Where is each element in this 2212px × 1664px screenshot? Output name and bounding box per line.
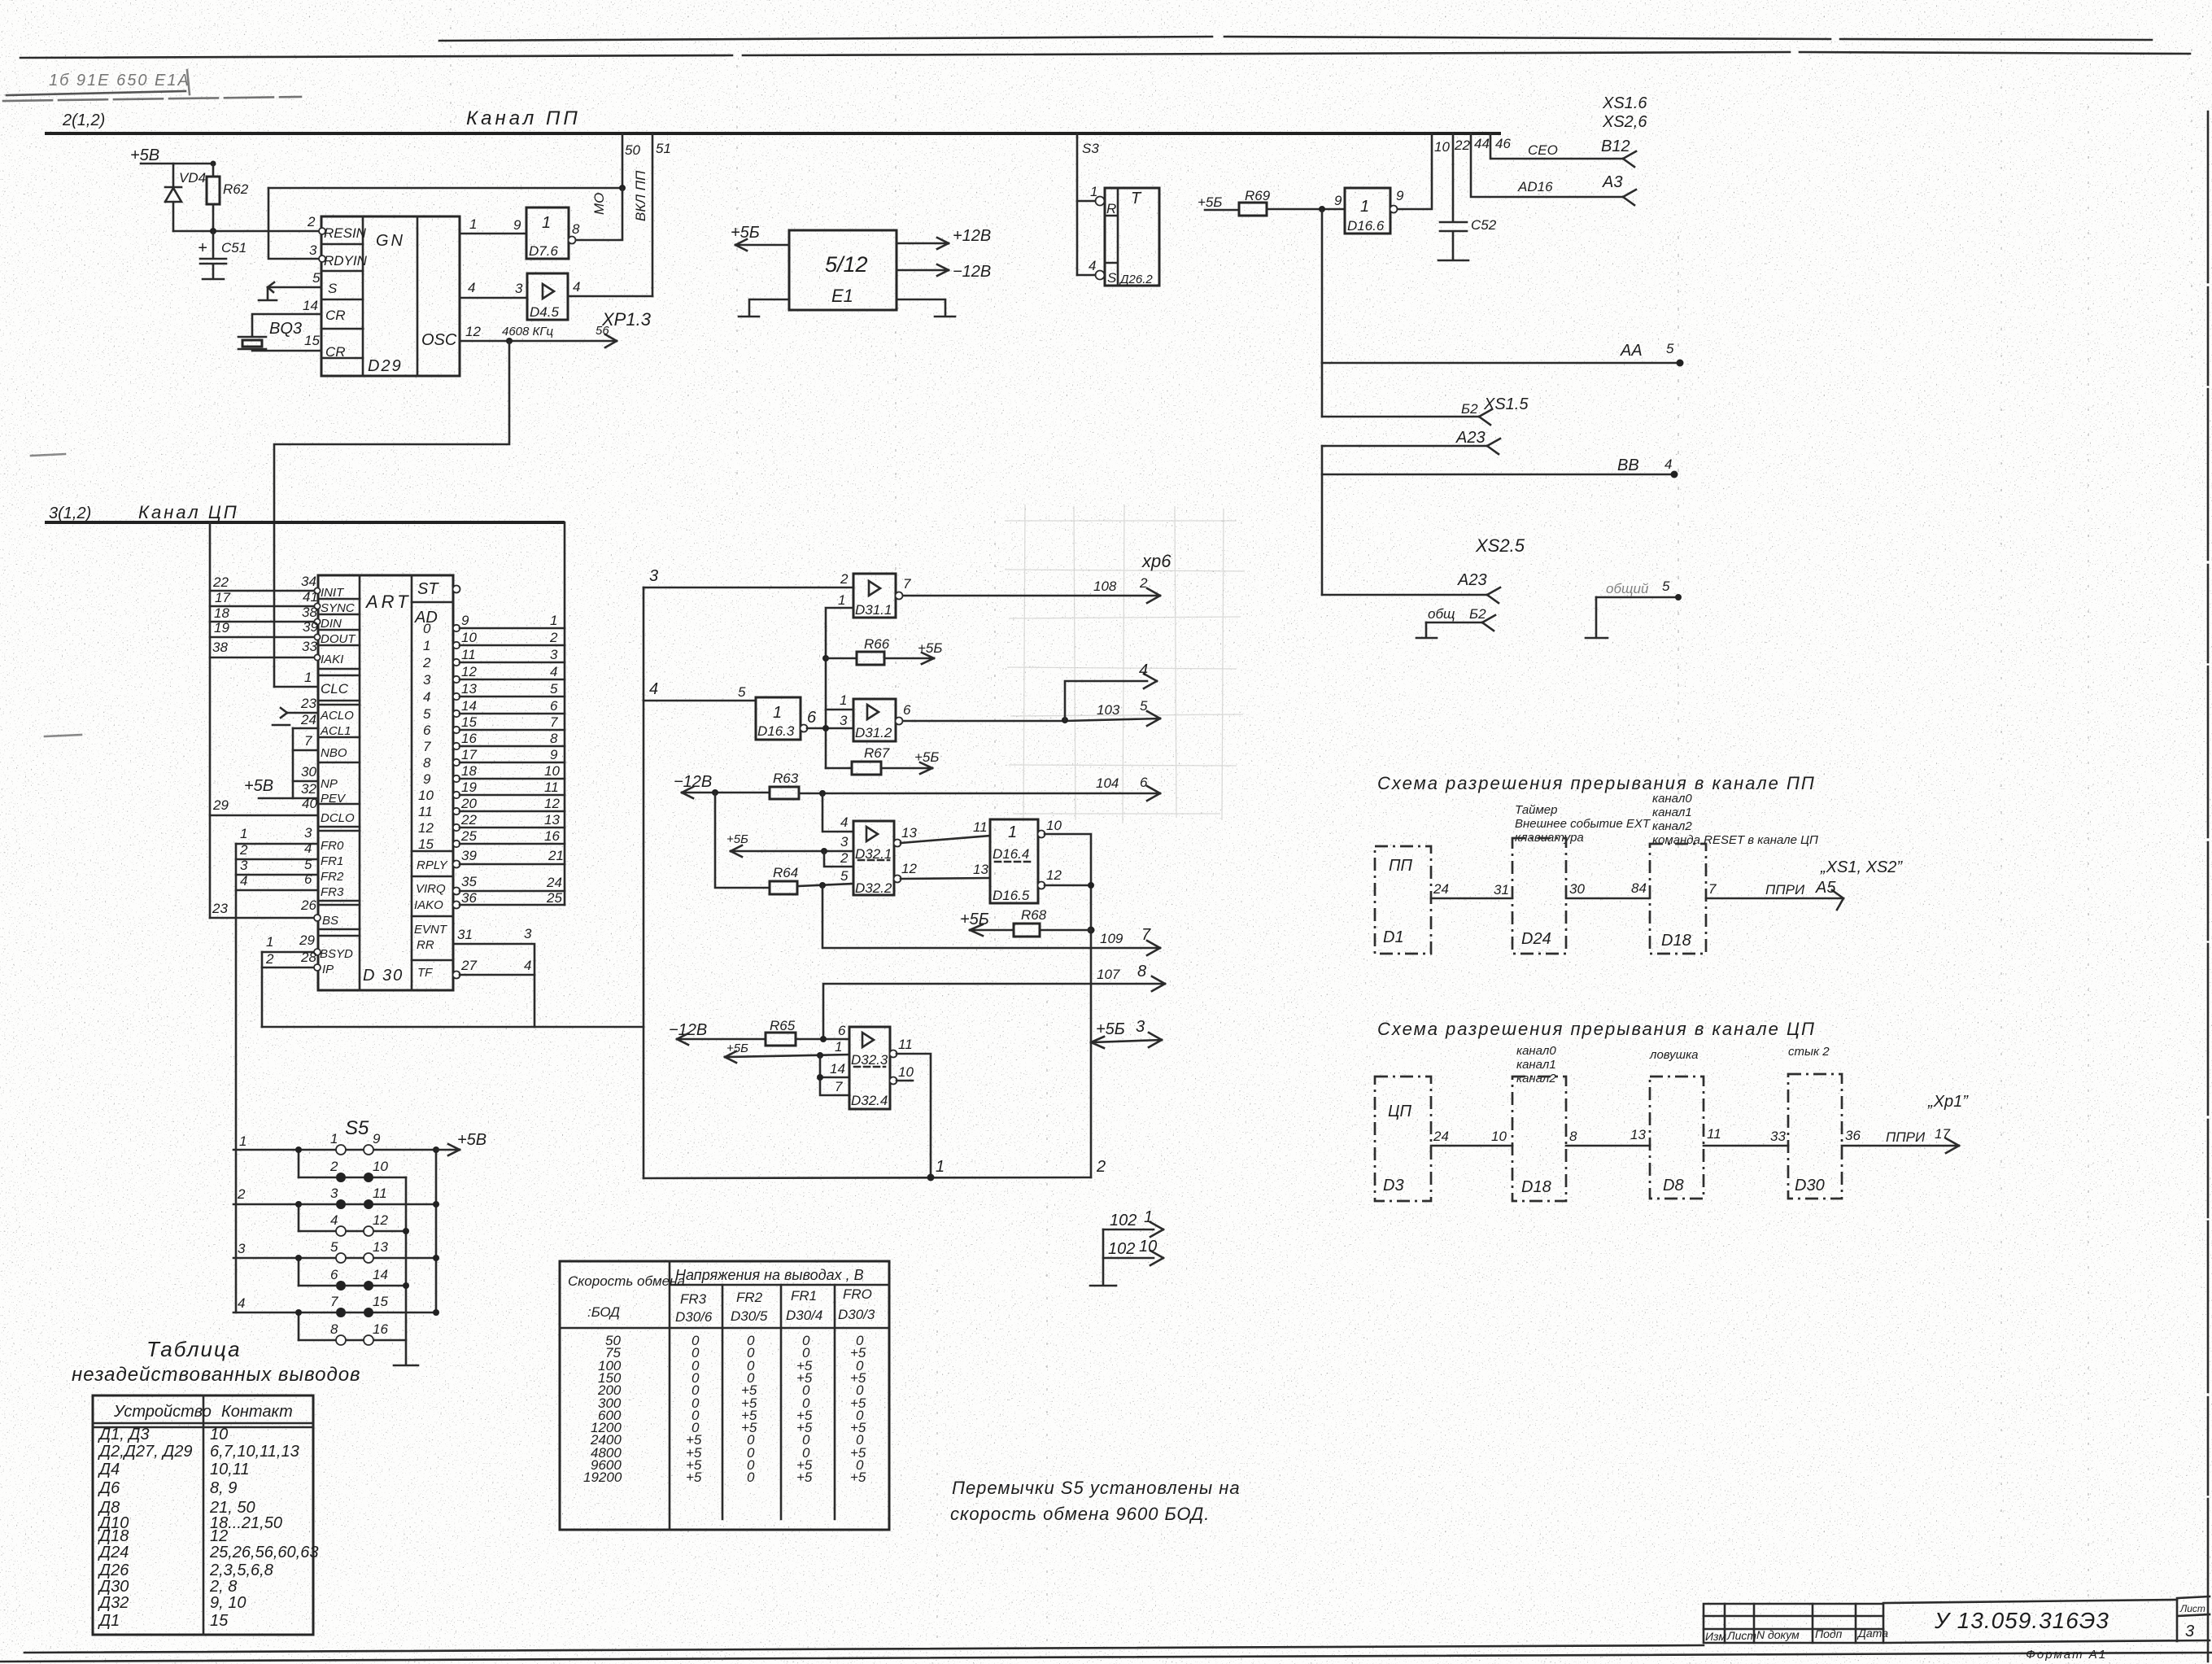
svg-text:FR3: FR3 bbox=[321, 885, 344, 899]
svg-text:FR2: FR2 bbox=[736, 1290, 763, 1305]
svg-text:ART: ART bbox=[364, 592, 412, 612]
chip D29 bbox=[319, 216, 460, 376]
ground left of E1 bbox=[739, 299, 789, 317]
svg-text:17: 17 bbox=[461, 747, 477, 762]
svg-text:2: 2 bbox=[840, 850, 849, 866]
svg-text:GN: GN bbox=[376, 232, 405, 250]
svg-text:Канал ПП: Канал ПП bbox=[466, 107, 581, 129]
svg-text:скорость обмена 9600 БОД.: скорость обмена 9600 БОД. bbox=[950, 1504, 1210, 1524]
svg-text:16: 16 bbox=[373, 1321, 388, 1337]
svg-text:R69: R69 bbox=[1245, 188, 1271, 203]
svg-text:команда RESET в канале ЦП: команда RESET в канале ЦП bbox=[1652, 833, 1818, 847]
svg-text:FR0: FR0 bbox=[321, 839, 344, 853]
svg-text:2: 2 bbox=[1139, 575, 1148, 591]
wire stub ACL1-NBO-NP-PEV bbox=[292, 728, 294, 798]
svg-text:30: 30 bbox=[301, 764, 316, 780]
svg-text:4608 КГц: 4608 КГц bbox=[502, 325, 554, 338]
wire bus Канал ПП bbox=[45, 132, 1501, 135]
svg-text:11: 11 bbox=[461, 647, 476, 662]
svg-text:1: 1 bbox=[239, 1133, 247, 1149]
svg-text:84: 84 bbox=[1631, 880, 1647, 896]
svg-text:N докум: N докум bbox=[1756, 1628, 1800, 1641]
svg-text:23: 23 bbox=[300, 696, 316, 711]
resistor R64 bbox=[770, 881, 797, 894]
switch S5 contact row 3/11 bbox=[233, 1203, 436, 1206]
svg-text:Напряжения на выводах , В: Напряжения на выводах , В bbox=[675, 1267, 864, 1283]
svg-text:+5Б: +5Б bbox=[914, 749, 939, 765]
svg-text:3: 3 bbox=[304, 825, 312, 841]
pin ACL1 24 bbox=[293, 727, 318, 730]
svg-text:15: 15 bbox=[373, 1294, 388, 1309]
svg-text:14: 14 bbox=[830, 1061, 845, 1077]
svg-text:1: 1 bbox=[773, 704, 782, 722]
fold crease lines bbox=[736, 65, 738, 504]
svg-text:26: 26 bbox=[300, 898, 316, 913]
pin NP 30 bbox=[293, 780, 318, 783]
wire D30 - ППРИ 17 bbox=[1842, 1138, 1959, 1153]
svg-text:DOUT: DOUT bbox=[321, 632, 356, 646]
wire down to Б2 bbox=[1321, 363, 1324, 417]
wire RDYIN loop bbox=[268, 188, 321, 259]
svg-text:OSC: OSC bbox=[421, 331, 457, 349]
svg-text:DCLO: DCLO bbox=[321, 811, 355, 825]
svg-text:+5Б: +5Б bbox=[726, 832, 748, 846]
wire stub pins 14 7 bbox=[817, 1052, 823, 1059]
stamp top-left bbox=[3, 70, 301, 101]
svg-text:Б2: Б2 bbox=[1461, 401, 1478, 417]
svg-text:5/12: 5/12 bbox=[825, 252, 868, 277]
svg-text:6: 6 bbox=[423, 723, 431, 738]
wire D4.5 out to node 51 bbox=[568, 295, 652, 298]
svg-text:S: S bbox=[1107, 270, 1117, 286]
svg-text:4: 4 bbox=[1139, 662, 1148, 679]
svg-text:19: 19 bbox=[214, 620, 229, 635]
svg-text:S5: S5 bbox=[345, 1117, 369, 1139]
svg-text:13: 13 bbox=[373, 1239, 388, 1255]
svg-text:Изм: Изм bbox=[1705, 1630, 1726, 1643]
svg-text:17: 17 bbox=[215, 590, 230, 605]
svg-text:ACLO: ACLO bbox=[320, 709, 354, 723]
svg-text:11: 11 bbox=[973, 819, 988, 835]
wire D32.1 out to D16.4 bbox=[901, 836, 990, 843]
pin ST bbox=[453, 586, 460, 593]
block D8 bbox=[1650, 1077, 1704, 1199]
svg-text:канал0: канал0 bbox=[1652, 792, 1692, 806]
svg-text:3: 3 bbox=[238, 1241, 246, 1256]
node 51 bbox=[652, 133, 654, 296]
svg-text:канал1: канал1 bbox=[1516, 1058, 1556, 1072]
svg-text:12: 12 bbox=[465, 324, 481, 339]
svg-text:15: 15 bbox=[304, 333, 320, 348]
svg-text:RESIN: RESIN bbox=[324, 225, 367, 241]
svg-text:51: 51 bbox=[656, 141, 671, 156]
svg-text:7: 7 bbox=[835, 1079, 843, 1094]
svg-text:D32.2: D32.2 bbox=[855, 880, 892, 896]
block D24 bbox=[1512, 838, 1566, 954]
svg-text:D30/4: D30/4 bbox=[786, 1308, 822, 1323]
node 50 bbox=[622, 133, 624, 188]
svg-text:R63: R63 bbox=[773, 771, 799, 786]
svg-text:+5Б: +5Б bbox=[726, 1042, 748, 1055]
svg-text:31: 31 bbox=[457, 927, 473, 942]
pin TF 27 wire 4 bbox=[453, 972, 460, 979]
resistor R69 bbox=[1239, 203, 1267, 216]
svg-text:D31.1: D31.1 bbox=[855, 602, 892, 618]
svg-text:8: 8 bbox=[572, 221, 580, 237]
svg-text:D30/3: D30/3 bbox=[838, 1307, 875, 1322]
svg-text:10: 10 bbox=[461, 630, 477, 645]
wire down bbox=[1321, 446, 1324, 595]
pin SYNC 41 wire 17 bbox=[210, 605, 318, 608]
svg-text:3: 3 bbox=[524, 926, 532, 941]
buffer D32.3 / D32.4 bbox=[849, 1027, 897, 1109]
wire gate bus bbox=[643, 587, 645, 1178]
svg-text:D4.5: D4.5 bbox=[530, 304, 559, 320]
svg-text:+5В: +5В bbox=[457, 1131, 486, 1149]
wire 4608 down to CLC bbox=[506, 338, 513, 344]
switch S5 contact row 4/12 bbox=[299, 1230, 406, 1233]
inverter D7.6 bbox=[526, 207, 576, 259]
wire ПП-D24 bbox=[1431, 898, 1512, 900]
block ПП D1 bbox=[1375, 846, 1431, 954]
wire BSYD/IP stub down bbox=[261, 952, 264, 1027]
right border bbox=[2207, 111, 2210, 1662]
svg-text:8: 8 bbox=[330, 1321, 338, 1337]
svg-text:8: 8 bbox=[423, 755, 431, 771]
svg-text:Контакт: Контакт bbox=[221, 1403, 293, 1421]
svg-text:5: 5 bbox=[550, 681, 558, 697]
wire S5 even-row collector to ground bbox=[405, 1177, 408, 1365]
svg-text:D1: D1 bbox=[1383, 928, 1404, 946]
svg-text:3: 3 bbox=[550, 647, 558, 662]
svg-text:19: 19 bbox=[461, 780, 477, 795]
svg-text:Д32: Д32 bbox=[98, 1594, 129, 1612]
wire D16.3 out bbox=[807, 727, 853, 730]
paper speckle bbox=[0, 0, 1, 1]
svg-text:6: 6 bbox=[304, 871, 312, 887]
power −12В bbox=[897, 264, 949, 276]
svg-text:ЦП: ЦП bbox=[1388, 1103, 1412, 1120]
pin CLC 1 bbox=[274, 686, 318, 688]
svg-text:38: 38 bbox=[302, 605, 317, 620]
svg-text:13: 13 bbox=[1630, 1127, 1646, 1142]
svg-text:7: 7 bbox=[903, 576, 911, 592]
svg-text:4: 4 bbox=[1089, 258, 1096, 273]
svg-text:10: 10 bbox=[898, 1064, 914, 1080]
svg-text:12: 12 bbox=[901, 861, 917, 876]
svg-text:10: 10 bbox=[210, 1426, 228, 1443]
svg-text:незадействованных выводов: незадействованных выводов bbox=[72, 1364, 361, 1386]
svg-text:+12В: +12В bbox=[953, 227, 991, 245]
block D30 bbox=[1788, 1074, 1842, 1199]
svg-text:D29: D29 bbox=[368, 357, 403, 375]
svg-text:10: 10 bbox=[1491, 1129, 1507, 1144]
svg-text:9, 10: 9, 10 bbox=[210, 1594, 246, 1612]
resistor R63 bbox=[770, 787, 799, 799]
svg-text:Лист: Лист bbox=[2179, 1603, 2205, 1614]
svg-text:6,7,10,11,13: 6,7,10,11,13 bbox=[210, 1443, 299, 1461]
buffer D4.5 bbox=[527, 273, 568, 320]
svg-text:7: 7 bbox=[550, 714, 558, 730]
svg-text:12: 12 bbox=[461, 664, 477, 679]
svg-text:Формат А1: Формат А1 bbox=[2026, 1648, 2107, 1662]
svg-text:1: 1 bbox=[1090, 184, 1097, 199]
svg-text:BS: BS bbox=[322, 914, 338, 928]
svg-text:19200: 19200 bbox=[583, 1470, 622, 1485]
svg-text:+5Б: +5Б bbox=[1198, 194, 1222, 210]
svg-text:5: 5 bbox=[840, 868, 849, 884]
svg-text:1б 91Е 650 Е1А: 1б 91Е 650 Е1А bbox=[49, 72, 190, 90]
svg-text:22: 22 bbox=[460, 812, 477, 828]
svg-text:Б2: Б2 bbox=[1469, 606, 1486, 622]
svg-text:Д2,Д27, Д29: Д2,Д27, Д29 bbox=[98, 1443, 193, 1461]
wire D7.6 out to node 50 bbox=[576, 188, 622, 240]
svg-text:4: 4 bbox=[330, 1212, 338, 1228]
svg-text:INIT: INIT bbox=[321, 586, 345, 600]
svg-text:1: 1 bbox=[840, 692, 847, 708]
switch S5 contact row 1/9 bbox=[233, 1149, 436, 1151]
svg-text:4: 4 bbox=[423, 689, 430, 705]
wire −12В down to R64 bbox=[715, 793, 770, 888]
svg-text:25: 25 bbox=[460, 828, 477, 844]
wire D18 - ППРИ А5 bbox=[1706, 890, 1843, 910]
svg-text:+5Б: +5Б bbox=[1096, 1020, 1125, 1038]
svg-text:D24: D24 bbox=[1521, 930, 1551, 948]
svg-text:„Хр1”: „Хр1” bbox=[1927, 1093, 1969, 1111]
wire and ground bbox=[1102, 1229, 1105, 1285]
svg-text:4: 4 bbox=[238, 1295, 245, 1311]
ground bbox=[394, 1365, 418, 1367]
top border line 2 bbox=[20, 52, 2190, 58]
svg-text:Т: Т bbox=[1131, 190, 1142, 207]
svg-text:3(1,2): 3(1,2) bbox=[49, 504, 91, 522]
wire D24-D18 bbox=[1566, 898, 1650, 900]
pin DIN 38 wire 18 bbox=[210, 621, 318, 623]
svg-text:хр6: хр6 bbox=[1141, 551, 1171, 571]
svg-text:10: 10 bbox=[1434, 139, 1450, 155]
svg-text:−12В: −12В bbox=[953, 263, 991, 281]
pin IAKO 36 wire 25 bbox=[453, 902, 460, 909]
svg-text:3: 3 bbox=[240, 858, 248, 873]
svg-text:Перемычки S5 установлены на: Перемычки S5 установлены на bbox=[952, 1478, 1241, 1498]
wire bottom link to gate bus bbox=[262, 1026, 644, 1029]
svg-text:2: 2 bbox=[422, 655, 431, 670]
svg-text:104: 104 bbox=[1096, 775, 1119, 791]
wire bus Канал ЦП bbox=[45, 521, 565, 524]
svg-text:1: 1 bbox=[1008, 823, 1017, 841]
svg-text:11: 11 bbox=[544, 780, 559, 795]
wire 4 to D16.3 bbox=[644, 700, 756, 702]
net AA bbox=[1322, 362, 1680, 365]
svg-text:5: 5 bbox=[304, 857, 312, 872]
svg-text:IAKI: IAKI bbox=[321, 653, 343, 666]
pin BSYD 29 wire 1 bbox=[262, 951, 314, 954]
svg-text:7: 7 bbox=[423, 739, 431, 754]
right pin cells bbox=[412, 602, 453, 960]
pin 46 / net CEO bbox=[1490, 133, 1623, 159]
svg-text:D7.6: D7.6 bbox=[529, 243, 558, 259]
svg-text:Д26: Д26 bbox=[98, 1561, 129, 1579]
svg-text:XS2.5: XS2.5 bbox=[1475, 535, 1525, 556]
svg-text:Д1: Д1 bbox=[98, 1612, 120, 1630]
resistor R68 bbox=[1088, 927, 1095, 934]
svg-text:XS1.6: XS1.6 bbox=[1602, 94, 1647, 112]
pin FR2 5 wire 3 bbox=[236, 874, 318, 876]
svg-text:14: 14 bbox=[373, 1267, 388, 1282]
svg-text:Лист: Лист bbox=[1726, 1629, 1756, 1642]
svg-text:DIN: DIN bbox=[321, 617, 342, 631]
wire FR bus bbox=[235, 844, 238, 1312]
wire S3 bbox=[1076, 133, 1079, 275]
svg-text:2: 2 bbox=[307, 214, 316, 229]
svg-text:ST: ST bbox=[417, 580, 439, 598]
svg-text:4: 4 bbox=[304, 841, 312, 856]
chip D30 body bbox=[318, 575, 453, 990]
svg-text:10: 10 bbox=[1139, 1238, 1157, 1256]
wire pin1 D29 to D7.6 bbox=[460, 233, 526, 235]
wire D16.6 out to pin 10 bbox=[1398, 133, 1432, 209]
svg-text:8: 8 bbox=[1569, 1129, 1577, 1144]
svg-text:общий: общий bbox=[1606, 581, 1649, 596]
wire 107 to xp6 pin 8 bbox=[823, 976, 1165, 1039]
svg-text:А23: А23 bbox=[1457, 571, 1487, 589]
svg-text:IAKO: IAKO bbox=[414, 898, 443, 912]
svg-text:28: 28 bbox=[300, 950, 316, 965]
svg-text:D32.3: D32.3 bbox=[851, 1052, 888, 1068]
svg-text:Устройство: Устройство bbox=[113, 1403, 212, 1421]
svg-text:36: 36 bbox=[461, 890, 477, 906]
svg-text:EVNT: EVNT bbox=[414, 923, 448, 937]
svg-text:RDYIN: RDYIN bbox=[324, 253, 368, 269]
ground right of E1 bbox=[897, 299, 955, 317]
svg-text:15: 15 bbox=[210, 1612, 229, 1630]
svg-text:R: R bbox=[1106, 201, 1116, 216]
pin IP 28 wire 2 bbox=[262, 967, 314, 969]
svg-text:Подп: Подп bbox=[1815, 1627, 1843, 1640]
svg-text:Д4: Д4 bbox=[98, 1461, 120, 1478]
svg-text:4: 4 bbox=[550, 664, 557, 679]
svg-text:0: 0 bbox=[423, 621, 431, 636]
svg-text:34: 34 bbox=[301, 574, 316, 589]
svg-text:1: 1 bbox=[550, 613, 557, 628]
svg-text:D18: D18 bbox=[1521, 1178, 1551, 1196]
wire 3 to D31.1 bbox=[644, 587, 853, 589]
svg-text:2: 2 bbox=[239, 842, 248, 858]
svg-text:7: 7 bbox=[304, 733, 312, 749]
svg-text:5: 5 bbox=[1662, 579, 1670, 594]
svg-text:D16.3: D16.3 bbox=[757, 723, 795, 739]
svg-text:Д26.2: Д26.2 bbox=[1119, 273, 1153, 286]
pin RPLY 39 wire 21 bbox=[453, 861, 460, 868]
net A23 bbox=[1322, 439, 1500, 454]
svg-text:29: 29 bbox=[299, 932, 315, 948]
svg-text:+5Б: +5Б bbox=[918, 640, 942, 656]
svg-text:1: 1 bbox=[266, 934, 273, 950]
svg-text:9: 9 bbox=[550, 747, 558, 762]
svg-text:5: 5 bbox=[330, 1239, 338, 1255]
svg-text:1: 1 bbox=[542, 214, 551, 232]
wire D8-D30 bbox=[1704, 1145, 1788, 1147]
svg-text:4: 4 bbox=[468, 280, 475, 295]
svg-text:А5: А5 bbox=[1815, 879, 1836, 897]
svg-text:Скорость обмена: Скорость обмена bbox=[568, 1273, 685, 1289]
svg-text:R67: R67 bbox=[864, 745, 890, 761]
buffer D31.2 bbox=[853, 699, 903, 741]
svg-text:38: 38 bbox=[212, 640, 228, 655]
svg-text:13: 13 bbox=[973, 862, 988, 877]
svg-text:25,26,56,60,63: 25,26,56,60,63 bbox=[209, 1544, 318, 1561]
svg-text:S: S bbox=[328, 281, 338, 296]
svg-text:12: 12 bbox=[544, 796, 560, 811]
resistor R62 bbox=[207, 177, 220, 204]
svg-text:12: 12 bbox=[1046, 867, 1062, 883]
ground bbox=[203, 278, 224, 281]
svg-text:12: 12 bbox=[418, 820, 434, 836]
svg-text:канал0: канал0 bbox=[1516, 1044, 1556, 1058]
svg-text:36: 36 bbox=[1845, 1128, 1861, 1143]
svg-text:+5В: +5В bbox=[130, 146, 159, 164]
svg-text:+: + bbox=[198, 239, 207, 257]
svg-text:R64: R64 bbox=[773, 865, 798, 880]
svg-text:D32.4: D32.4 bbox=[851, 1093, 888, 1108]
svg-text:13: 13 bbox=[544, 812, 560, 828]
svg-text:24: 24 bbox=[1433, 881, 1449, 897]
svg-text:1: 1 bbox=[936, 1158, 945, 1176]
svg-text:ППРИ: ППРИ bbox=[1765, 882, 1805, 898]
faint pencil grid smudge bbox=[1005, 504, 1245, 823]
svg-text:E1: E1 bbox=[831, 286, 853, 306]
bottom border line A bbox=[24, 1645, 1704, 1653]
svg-text:СЕО: СЕО bbox=[1528, 142, 1558, 158]
wire pin12 OSC 4608 КГц bbox=[460, 340, 617, 343]
inverter D16.6 bbox=[1345, 188, 1398, 234]
svg-text:1: 1 bbox=[1144, 1208, 1153, 1226]
svg-text:10: 10 bbox=[544, 763, 560, 779]
svg-text:6: 6 bbox=[1140, 775, 1148, 790]
pin EVNT RR 31 wire 3 bbox=[453, 944, 534, 1027]
inverter D16.4 / D16.5 bbox=[990, 819, 1045, 903]
pin BS 26 wire 23 bbox=[210, 917, 314, 919]
svg-text:А3: А3 bbox=[1602, 173, 1622, 191]
svg-text:D16.6: D16.6 bbox=[1347, 218, 1385, 234]
svg-text:16: 16 bbox=[544, 828, 560, 844]
svg-text:10: 10 bbox=[1046, 818, 1062, 833]
svg-text:+5Б: +5Б bbox=[960, 911, 989, 928]
svg-text:33: 33 bbox=[1770, 1129, 1786, 1144]
converter E1 5/12 bbox=[789, 230, 897, 310]
svg-text:3: 3 bbox=[840, 834, 849, 849]
svg-text:R62: R62 bbox=[223, 181, 249, 197]
pin VIRQ 35 wire 24 bbox=[453, 888, 460, 895]
net BB bbox=[1322, 474, 1674, 476]
svg-text:17: 17 bbox=[1935, 1126, 1950, 1142]
svg-text:TF: TF bbox=[417, 966, 433, 980]
wire D32.2 out to D16.5 bbox=[901, 878, 990, 879]
svg-text:IP: IP bbox=[322, 963, 334, 976]
trigger Д26.2 bbox=[1096, 188, 1160, 286]
svg-text:6: 6 bbox=[838, 1023, 846, 1038]
wire R63 node to D32.1 pin4 bbox=[822, 793, 853, 832]
block ЦП D3 bbox=[1375, 1077, 1431, 1201]
resistor R67 bbox=[826, 767, 852, 770]
svg-text:56: 56 bbox=[596, 324, 609, 338]
switch S5 contact row 5/13 bbox=[233, 1257, 436, 1260]
svg-text:7: 7 bbox=[1708, 881, 1717, 897]
buffer D31.1 bbox=[853, 574, 903, 618]
svg-text:FR2: FR2 bbox=[321, 870, 344, 884]
svg-text:АА: АА bbox=[1620, 342, 1643, 360]
svg-text:Д6: Д6 bbox=[98, 1479, 120, 1497]
